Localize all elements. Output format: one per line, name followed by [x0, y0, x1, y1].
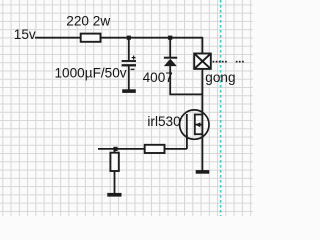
resistor R3 pulldown — [110, 153, 118, 171]
cyan guide line — [220, 0, 222, 216]
resistor R1 220 2w — [81, 34, 101, 42]
resistor R2 gate — [145, 145, 165, 153]
svg-text:4007: 4007 — [143, 70, 173, 85]
wire R1 to corner — [101, 37, 203, 39]
wire diode down — [169, 66, 171, 95]
wire junction to R3 — [114, 149, 116, 153]
wire diode to drain node — [169, 93, 202, 95]
capacitor C1 1000uF/50v — [122, 56, 136, 70]
ground under capacitor — [122, 89, 136, 93]
svg-text:irl530: irl530 — [147, 114, 181, 129]
svg-text:1000µF/50v: 1000µF/50v — [55, 65, 127, 80]
wire junction to capacitor — [128, 38, 130, 61]
wire capacitor to ground — [128, 66, 130, 90]
svg-text:gong: gong — [205, 70, 235, 85]
ground under R3 — [107, 193, 121, 197]
wire junction to diode — [169, 38, 171, 57]
junction node C — [113, 147, 117, 151]
ground under MOSFET source — [196, 170, 210, 174]
wire 15v to R1 — [35, 37, 81, 39]
diode D1 4007 — [164, 57, 177, 66]
wire gate lead — [186, 135, 188, 149]
wire R3 to ground — [114, 171, 116, 194]
junction node A — [127, 36, 131, 40]
wire gong box to MOSFET drain/source — [201, 69, 203, 171]
MOSFET Q1 irl530 — [180, 110, 209, 139]
svg-text:220 2w: 220 2w — [66, 14, 110, 29]
dotted wire continuation — [213, 61, 244, 63]
svg-text:15v: 15v — [14, 27, 36, 42]
gong box (load) — [194, 54, 211, 69]
wire corner down to gong box — [201, 37, 203, 54]
junction node B — [168, 36, 172, 40]
wire bottom rail to gate — [98, 148, 187, 150]
